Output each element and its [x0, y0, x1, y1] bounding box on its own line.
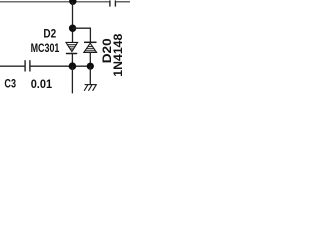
wire vertical from top rail down to D2 anode	[72, 2, 74, 43]
junction dot bottom right	[87, 63, 94, 70]
capacitor (top right, series in top rail) left plate	[109, 0, 111, 6]
capacitor C3 right plate	[29, 60, 31, 71]
wire D20 anode down to bottom node	[89, 52, 91, 66]
junction dot bottom left	[69, 62, 77, 70]
diode D20 1N4148 triangle (pointing up)	[84, 43, 97, 52]
svg-text:C3: C3	[4, 76, 16, 90]
svg-text:1N4148: 1N4148	[111, 33, 125, 76]
capacitor C3 left plate	[24, 60, 26, 71]
node junction dot mid (branch to D20)	[69, 25, 76, 32]
node junction dot on top rail	[69, 0, 76, 5]
diode D2 cathode bar	[66, 53, 77, 55]
wire left tail down from bottom-left junction	[71, 66, 73, 93]
wire bottom node rail from C3 to D20 leg	[30, 65, 90, 67]
svg-text:D2: D2	[43, 27, 56, 41]
ground symbol (bar with three hatch strokes)	[84, 85, 97, 91]
wire bottom node rail from left edge to C3 left plate	[0, 65, 25, 67]
wire top rail left segment	[0, 1, 110, 3]
wire D2 cathode down to bottom node	[71, 54, 73, 67]
diode D2 MC301 triangle (pointing down)	[66, 42, 78, 51]
wire top rail right segment	[115, 1, 130, 3]
svg-text:0.01: 0.01	[31, 77, 53, 91]
svg-text:MC301: MC301	[31, 41, 60, 55]
wire branch from mid junction right and down to D20 cathode	[73, 28, 91, 42]
diode D20 cathode bar (top)	[84, 41, 97, 43]
capacitor (top right) right plate	[114, 0, 116, 6]
wire ground lead down from bottom-right junction	[89, 66, 91, 84]
